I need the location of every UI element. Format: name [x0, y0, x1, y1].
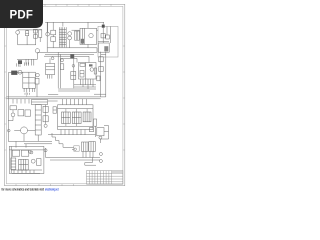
wire to node — [44, 55, 70, 57]
resistor R1 — [34, 29, 38, 33]
wire main bus B — [6, 98, 100, 100]
transistor Q10 — [44, 149, 47, 152]
sheet border outer frame — [5, 4, 125, 185]
wire C2 top lead — [26, 29, 28, 32]
resistor R23 — [74, 146, 79, 151]
transistor Q19 — [28, 150, 31, 153]
wire P1 drop — [23, 134, 25, 142]
wire drop from bus to right section — [102, 22, 104, 24]
IC tall U11 — [35, 105, 41, 135]
resistor R3 — [39, 30, 42, 38]
resistor R4 — [101, 34, 105, 38]
relay K3 — [72, 112, 81, 124]
wire Q16 feed — [72, 148, 74, 150]
resistor R14 — [97, 76, 100, 81]
transistor Q13 — [72, 65, 75, 68]
wire rail y54 — [45, 53, 94, 55]
module box E — [98, 26, 118, 57]
transistor Q1 — [16, 31, 20, 35]
wire J0 drop — [99, 139, 101, 143]
capacitor C7 hatched — [82, 142, 89, 151]
transistor Q7 — [11, 113, 15, 117]
border grid ticks bottom — [16, 184, 74, 186]
IC U4 top block — [32, 100, 48, 105]
resistor R20 — [43, 116, 48, 122]
connector J2 — [99, 160, 102, 163]
wire U6 bottom rail — [48, 134, 96, 136]
block M outline — [9, 146, 44, 173]
wire right drop a — [102, 28, 104, 43]
wire R3 drop — [39, 37, 41, 42]
wire right corner b — [100, 138, 109, 140]
wire M pins bottom — [14, 170, 34, 173]
wire lower rail second — [24, 143, 52, 145]
wire staircase — [52, 133, 59, 144]
potentiometer P1 — [21, 127, 28, 134]
wire S1 top lead — [49, 58, 51, 63]
wire input rail left — [18, 29, 42, 31]
capacitor bank C1 — [51, 30, 56, 41]
transistor Q6 — [18, 70, 22, 74]
wire vertical pair b — [59, 54, 61, 88]
wire main bus A — [6, 96, 105, 98]
wire U2 left drop — [100, 52, 102, 97]
wire right drop c — [110, 26, 112, 43]
wire long rail y52 — [37, 51, 97, 53]
IC U8 — [53, 107, 56, 113]
resistor R21 — [37, 159, 41, 166]
relay K6 — [21, 150, 28, 156]
wire lower rails a — [46, 157, 100, 159]
resistor R13 — [99, 67, 103, 72]
resistor R9 — [97, 128, 104, 136]
wire G chain vertical — [45, 105, 47, 125]
capacitor C9 — [71, 72, 76, 80]
wire Q bottom link2 — [84, 163, 86, 166]
wire bus left stub — [48, 94, 58, 96]
IC U1 — [23, 72, 36, 88]
block M inner rail bottom — [11, 169, 42, 171]
wire P1 right — [28, 129, 36, 131]
wire staircase second — [59, 144, 74, 148]
wire bottom stub — [85, 164, 96, 166]
wire right drop b — [106, 26, 108, 35]
svg-text:PDF: PDF — [9, 9, 33, 21]
wire Q3 to rail — [69, 40, 71, 48]
wire right branch — [95, 126, 97, 137]
capacitor C8 hatched — [89, 142, 96, 152]
transistor Q17 — [36, 73, 40, 77]
wire bus b1 — [74, 84, 96, 86]
wire rail junction — [96, 48, 98, 53]
IC U7 — [19, 159, 29, 170]
transistor Q16 — [74, 148, 76, 150]
capacitor C3 — [60, 64, 63, 70]
diode blob D1 — [81, 39, 84, 44]
wire drop bus to mid rail — [46, 22, 48, 52]
wire node lower rail — [60, 58, 77, 62]
resistor R5 — [106, 35, 110, 39]
resistor R19 — [43, 106, 48, 112]
wire Q7 top lead — [12, 110, 14, 113]
wire Q2 collector — [72, 29, 81, 31]
resistor R17 — [18, 110, 24, 116]
resistor R12 — [99, 57, 103, 62]
wire U1 pins bottom — [24, 88, 35, 92]
wire E mid rail — [98, 41, 109, 43]
transformer T2 — [11, 158, 16, 169]
wire P1 left — [14, 129, 20, 131]
wire U11 drop — [37, 135, 39, 141]
switch S1 — [46, 63, 55, 74]
wire bus right link — [94, 93, 106, 95]
wire U3 pins — [81, 79, 94, 89]
transistor Q18 — [46, 32, 50, 36]
wire U2 drop link — [101, 53, 106, 55]
wire long rail lower — [8, 140, 52, 142]
wire C7 C8 pins — [83, 152, 93, 158]
wire R1-R2 chain — [34, 30, 36, 45]
wire K1 out stub — [97, 29, 98, 31]
transistor Q5 — [61, 59, 64, 62]
border grid ticks right — [123, 46, 125, 150]
wire left vertical bus — [7, 73, 9, 142]
wire Q bottom link — [85, 162, 93, 164]
wire K1 to rail — [87, 44, 89, 47]
connector bubble J0 — [99, 136, 102, 139]
feed blob dark — [102, 25, 105, 28]
resistor R22 — [94, 119, 97, 126]
wire bus b3 — [58, 88, 96, 90]
wire right corner a — [104, 126, 109, 140]
border grid ticks top — [45, 4, 111, 6]
resistor R18 — [25, 110, 31, 116]
transformer T3 — [75, 31, 80, 40]
transistor Q15 — [30, 151, 33, 154]
diode chain A3: wire — [17, 58, 37, 60]
capacitor C4 — [35, 78, 39, 84]
wire drop from bus to C1 — [52, 22, 54, 30]
wire drop from bus to Q18 — [47, 22, 49, 32]
node junction dark — [70, 54, 74, 58]
sheet border inner frame — [6, 6, 123, 184]
op-amp U3 — [79, 63, 97, 80]
wire U6 pins top — [63, 99, 87, 105]
svg-text:electroniq.net: electroniq.net — [45, 188, 59, 192]
transistor Q4 — [51, 57, 54, 60]
wire U2 right drop — [105, 52, 107, 97]
pin number marks — [25, 93, 29, 95]
wire vertical pair a — [57, 52, 59, 88]
wire R9 out — [104, 131, 109, 133]
connector J1 — [99, 153, 102, 156]
wire drop from bus to T1 — [62, 22, 64, 26]
border grid ticks left — [5, 46, 7, 150]
transistor Q2 — [68, 32, 72, 36]
wire G pin drops — [13, 99, 29, 104]
wire Q7 bottom lead — [12, 117, 14, 121]
wire U1 to bus a — [26, 92, 28, 97]
wire J drop — [91, 158, 93, 163]
wire Q1 emitter — [17, 34, 19, 45]
wire U1 feed — [8, 72, 22, 74]
block M inner rail top — [9, 149, 44, 151]
wire drop from bus to K1 — [87, 22, 89, 28]
wire bus b2 — [74, 86, 96, 88]
relay K1 — [80, 28, 97, 44]
connector blob dark — [11, 71, 17, 75]
gate core dark — [89, 64, 93, 66]
wire C2 lower lead — [26, 36, 28, 45]
wire Q12 lead — [36, 53, 38, 59]
relay K2 — [62, 112, 71, 124]
pin marks above U1 — [17, 62, 29, 66]
transformer T1 — [59, 27, 66, 47]
wire lower rails b — [50, 159, 100, 161]
regulator U2 — [98, 43, 109, 52]
resistor R8 — [10, 106, 17, 110]
wire node to U3 — [74, 56, 89, 62]
wire M bottom rail — [12, 172, 40, 174]
wire M feeds — [16, 141, 26, 147]
relay K5 — [12, 150, 19, 156]
svg-text:for more schematics and tutori: for more schematics and tutorials visit — [2, 188, 45, 192]
wire bus b4 — [58, 90, 90, 92]
wire top supply bus — [45, 21, 104, 23]
transistor Q14 — [44, 124, 47, 127]
wire M out vertical — [45, 148, 47, 158]
IC U6 main — [58, 105, 93, 130]
connector bubble — [8, 129, 11, 132]
block M inner left line — [10, 146, 12, 173]
wire C1 to rail — [52, 41, 54, 47]
wire bus left stub2 — [48, 100, 58, 102]
PDF badge — [0, 0, 43, 28]
wire G lower link — [8, 120, 13, 122]
wire R3 lead — [39, 29, 41, 31]
wire U6 internal stubs — [66, 109, 87, 127]
relay K4 — [83, 112, 91, 122]
title block table — [87, 171, 123, 185]
diode D2 dark — [18, 60, 22, 64]
title block shading — [112, 171, 123, 173]
regulator U2 core — [104, 46, 108, 51]
wire mid vertical — [73, 56, 75, 88]
wire U6 pins bottom — [61, 130, 85, 135]
capacitor C2 — [26, 31, 29, 36]
transistor Q12 — [35, 49, 39, 53]
resistor R24 — [90, 128, 94, 132]
wire A3 stubs — [20, 59, 34, 67]
wire S1 pins — [47, 75, 52, 79]
transistor Q8 — [31, 159, 35, 163]
resistor R2 — [34, 35, 38, 39]
transistor Q3 — [68, 36, 72, 40]
wire C4 to bus — [36, 84, 38, 97]
wire secondary rail — [48, 47, 97, 49]
wire return rail left — [18, 44, 36, 46]
